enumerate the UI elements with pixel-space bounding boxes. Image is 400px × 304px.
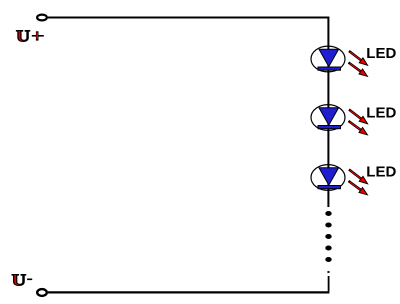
svg-text:LED: LED: [366, 164, 396, 181]
svg-text:LED: LED: [366, 45, 396, 62]
svg-text:U: U: [12, 271, 26, 290]
svg-text:U: U: [16, 27, 30, 46]
svg-text:LED: LED: [366, 105, 396, 122]
